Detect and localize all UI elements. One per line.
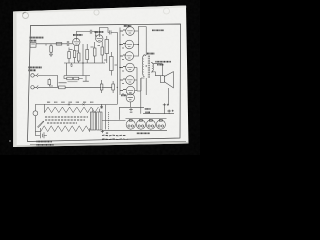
heater bus top wire xyxy=(35,103,117,105)
label 7500 xyxy=(137,132,150,134)
speaker SP1 xyxy=(160,76,164,83)
grid resistor r5 xyxy=(120,79,126,80)
resistor R11 xyxy=(59,86,66,89)
label No14 diagonal xyxy=(38,121,44,127)
resistor R1 to ground xyxy=(50,46,53,52)
filter capacitor C6 xyxy=(129,108,133,112)
grid resistor r4 xyxy=(120,67,126,68)
B plus riser xyxy=(137,27,146,92)
wire transformer down xyxy=(141,78,146,114)
heater string row 2 xyxy=(41,126,90,132)
resistor tick labels mid cluster xyxy=(70,35,125,94)
binder hole mark left xyxy=(23,13,29,19)
bus wire lower right xyxy=(143,107,174,114)
V2 cathode resistor R6 xyxy=(94,48,97,56)
paper page xyxy=(13,6,189,148)
tube V1 xyxy=(73,38,80,45)
label TRANS xyxy=(147,53,154,55)
heater tube type labels xyxy=(47,101,94,103)
note plus symbols xyxy=(101,130,108,134)
wire secondary to speaker xyxy=(151,64,162,76)
grid bus line xyxy=(119,28,121,96)
socket row bottom wire xyxy=(126,129,168,131)
grid resistor r2 xyxy=(120,44,126,45)
wire vertical x83 xyxy=(82,44,84,63)
phase splitter feed wire xyxy=(114,32,117,104)
resistor R3 xyxy=(73,51,76,58)
output tube V5 xyxy=(125,52,134,61)
filter capacitor C7 plus xyxy=(163,103,169,106)
resistor R0 series xyxy=(56,43,62,46)
power transformer T1 bobbin B xyxy=(97,112,102,130)
heater note text lines xyxy=(45,117,88,123)
grid resistor r3 xyxy=(120,55,126,56)
label PHONOGRAPH INPUT xyxy=(30,37,44,39)
grid resistor r1 xyxy=(120,30,126,31)
ground G1 xyxy=(49,54,53,56)
tube socket S1 xyxy=(126,120,135,129)
resistor R5 xyxy=(86,50,89,60)
resistor R10 xyxy=(48,80,51,85)
junction X1 xyxy=(68,103,70,105)
battery B1 xyxy=(41,128,48,138)
output tube V3 xyxy=(126,27,135,36)
dust speck xyxy=(9,140,11,142)
label 750 ohm xyxy=(145,108,151,110)
label 350 VOLTS xyxy=(152,29,164,31)
scanner background xyxy=(0,0,200,155)
tube socket S4 xyxy=(156,120,165,129)
schematic border frame xyxy=(28,24,181,142)
plate bus lower xyxy=(134,68,137,92)
label 12AX7 V1 xyxy=(73,34,83,36)
tube socket S2 xyxy=(136,120,145,129)
coupling capacitor C2 xyxy=(90,30,96,34)
label V2 xyxy=(95,31,104,33)
resistor R9 horizontal xyxy=(74,77,79,80)
wire mid bus xyxy=(90,62,105,64)
heater string row 1 xyxy=(44,107,98,113)
wire to grid bus xyxy=(59,63,67,83)
wire phono to V1 grid xyxy=(36,43,67,45)
label MICROPHONE INPUTS xyxy=(28,66,41,68)
socket row top wire xyxy=(126,118,167,120)
wire mixer vertical xyxy=(57,75,59,87)
tube socket S3 xyxy=(146,120,155,129)
battery feed wire xyxy=(34,104,36,110)
wire lower bus xyxy=(64,63,90,76)
output transformer secondary winding xyxy=(151,62,153,72)
paper grain xyxy=(0,0,1,1)
capacitor C5 xyxy=(112,84,115,90)
wire transformer to sockets xyxy=(90,120,126,131)
binder hole mark right xyxy=(164,8,170,14)
label PM SPEAKER xyxy=(155,61,170,63)
handwritten note line 2 xyxy=(102,138,128,141)
V1 cathode resistor cluster R2 xyxy=(68,52,71,59)
transformer T1 top leads xyxy=(93,104,103,112)
tube V2 xyxy=(96,35,103,42)
phono jack J1 xyxy=(30,43,36,48)
wire rectifier to transformer xyxy=(119,102,144,120)
junction X2 xyxy=(83,103,85,105)
resistor R4 xyxy=(78,53,81,61)
output tube V4 xyxy=(125,40,134,49)
resistor R7 xyxy=(101,47,104,55)
output tube V6 xyxy=(126,63,135,72)
mic jack J2 xyxy=(31,74,34,77)
resistor R8 horizontal xyxy=(67,77,73,80)
label under R8 xyxy=(68,81,78,83)
V1 plate wire xyxy=(76,32,90,39)
left page edge shading xyxy=(13,11,17,147)
output tube V7 xyxy=(126,76,135,85)
ground G2 xyxy=(70,63,73,66)
binder hole mark center xyxy=(94,10,99,15)
transformer core xyxy=(148,56,150,79)
coupling capacitor C3 xyxy=(109,30,114,34)
V2 plate wire xyxy=(99,28,108,35)
power transformer T1 bobbin A xyxy=(90,112,95,130)
label 6AG7 xyxy=(124,25,131,27)
capacitor C1 xyxy=(67,41,69,46)
secondary dashes xyxy=(108,112,110,130)
wire speaker to filter caps xyxy=(168,88,170,105)
potentiometer VR1 xyxy=(105,40,109,54)
rectifier tube V9 xyxy=(126,94,134,102)
mic jack J3 xyxy=(31,86,34,89)
transformer core dashes xyxy=(105,105,107,130)
handwritten note line 1 xyxy=(102,134,126,137)
wire mic2 xyxy=(38,86,59,88)
label 6X5 xyxy=(121,94,126,96)
plug P1 xyxy=(33,111,38,116)
wire mic1 xyxy=(38,74,58,76)
capacitor C4 xyxy=(100,84,103,90)
plate bus upper xyxy=(133,27,138,57)
page bottom edge shadow xyxy=(30,141,186,144)
label 1.5 VOLT xyxy=(37,141,53,143)
grid resistor r6 xyxy=(120,90,126,91)
output tube V8 xyxy=(126,86,135,95)
potentiometer VR2 xyxy=(110,57,114,71)
output transformer primary winding xyxy=(142,55,145,77)
bus wire under V1 xyxy=(64,58,90,64)
wire heater row2 left xyxy=(35,131,40,133)
junction dots xyxy=(83,36,146,87)
filter capacitor C8 plus xyxy=(167,110,173,113)
